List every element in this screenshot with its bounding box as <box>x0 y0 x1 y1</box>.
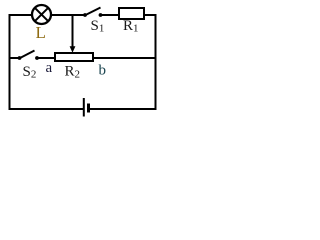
wire: middle, left wire to S2 <box>9 57 20 59</box>
wire: middle, S2 to R2 <box>37 57 55 59</box>
wire: left vertical <box>9 14 11 110</box>
wire: right vertical <box>155 14 157 110</box>
wiper arrowhead <box>70 46 76 53</box>
lamp L <box>32 5 51 24</box>
wire: top, S1 to R1 <box>101 14 120 16</box>
wire: top, left wire to lamp <box>9 14 33 16</box>
svg-text:a: a <box>46 60 53 76</box>
svg-text:b: b <box>99 63 107 79</box>
rheostat R2 <box>55 53 93 61</box>
wire: top, R1 to right wire <box>144 14 157 16</box>
wire: bottom, battery to right wire <box>90 108 157 110</box>
wire: top, lamp to switch S1 <box>51 14 84 16</box>
battery cell <box>84 98 89 117</box>
wire: middle, R2 to right wire <box>93 57 157 59</box>
switch S1 <box>83 8 102 17</box>
wiper wire down from top <box>72 14 74 48</box>
switch S2 <box>18 51 39 60</box>
wire: bottom, left wire to battery <box>9 108 84 110</box>
resistor R1 <box>119 8 144 19</box>
svg-text:L: L <box>36 23 46 42</box>
